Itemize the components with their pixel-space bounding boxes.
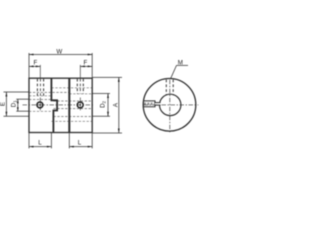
svg-text:E: E [0, 102, 7, 106]
svg-text:W: W [56, 48, 62, 55]
svg-text:F: F [84, 60, 88, 67]
svg-text:F: F [34, 60, 38, 67]
svg-text:D2: D2 [100, 100, 107, 107]
svg-text:D1: D1 [10, 100, 17, 107]
svg-text:L: L [38, 140, 42, 147]
svg-text:L: L [78, 140, 82, 147]
